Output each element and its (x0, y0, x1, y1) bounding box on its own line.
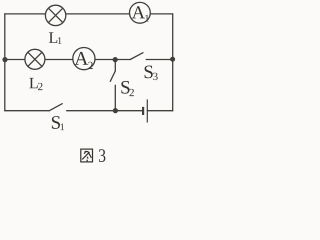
label L1 (49, 32, 62, 43)
switch S3 (130, 53, 143, 60)
ammeter A1 (130, 2, 151, 23)
label L2 (29, 78, 42, 90)
node junction middle (113, 57, 118, 62)
wire top (5, 13, 173, 15)
wire S3 to right (146, 59, 173, 61)
node junction bottom (113, 108, 118, 113)
switch S1 (49, 104, 62, 111)
label S1 (52, 116, 64, 130)
node junction left (2, 57, 7, 62)
wire middle row (5, 59, 130, 61)
lamp L2 (25, 49, 45, 69)
label S3 (145, 66, 158, 81)
ammeter A2 (73, 48, 95, 70)
label A2 (74, 52, 92, 69)
wire battery to corner (147, 110, 172, 112)
node junction right (170, 57, 175, 62)
wire S2 branch upper (114, 60, 116, 72)
label S2 (121, 81, 134, 96)
label A1 (132, 6, 149, 21)
wire left (4, 14, 6, 111)
caption figure 3 (81, 149, 106, 162)
wire bottom left segment (5, 110, 50, 112)
lamp L1 (45, 5, 65, 25)
wire bottom middle segment (67, 110, 142, 112)
wire right (172, 14, 174, 111)
wire S2 branch lower (114, 85, 116, 110)
switch S2 (110, 71, 115, 81)
battery (143, 99, 147, 122)
